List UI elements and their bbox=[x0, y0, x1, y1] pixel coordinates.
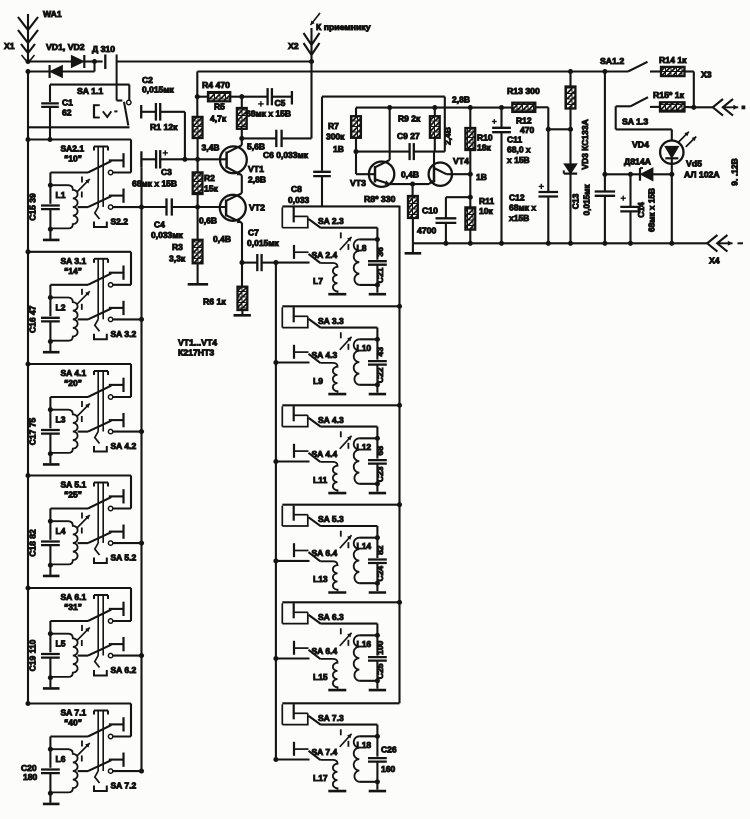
label SA 6.3 bbox=[318, 612, 344, 622]
svg-text:0,015мк: 0,015мк bbox=[247, 238, 280, 248]
wire C7 bus feed SA 4.4 bbox=[276, 460, 310, 462]
switch S2.2 blade bbox=[88, 196, 111, 207]
svg-text:SA 3.1: SA 3.1 bbox=[61, 256, 87, 266]
svg-text:VT4: VT4 bbox=[453, 156, 469, 166]
led VD5 bbox=[660, 129, 696, 174]
wire filter output bus bbox=[398, 206, 400, 704]
svg-text:L2: L2 bbox=[56, 302, 66, 312]
band box SA 4.1 right edge bbox=[113, 364, 131, 397]
wire collector node to C6 bbox=[242, 137, 276, 139]
svg-text:“10”: “10” bbox=[64, 154, 82, 164]
label C26 value bbox=[381, 744, 397, 774]
inductor L8 bbox=[354, 239, 378, 285]
node rail junction bbox=[546, 241, 551, 246]
label X4 bbox=[709, 256, 720, 266]
band box SA2.1 top edge bbox=[25, 137, 131, 142]
wire amp2 rail bbox=[356, 107, 512, 109]
svg-text:R4 470: R4 470 bbox=[202, 80, 230, 90]
switch SA 7.4 blade bbox=[309, 751, 321, 760]
resistor R11 bbox=[465, 207, 475, 243]
svg-text:0,015мк: 0,015мк bbox=[582, 184, 592, 216]
resistor R4 bbox=[208, 92, 230, 101]
label X1 bbox=[4, 41, 15, 51]
wire top feed corner bbox=[117, 55, 312, 101]
svg-text:C12: C12 bbox=[509, 193, 525, 203]
node rail junction bbox=[443, 241, 448, 246]
switch SA 6.4 contact bbox=[294, 543, 309, 557]
wire antenna bus left bbox=[27, 72, 29, 704]
inductor L11 bbox=[320, 462, 337, 492]
svg-text:S2.2: S2.2 bbox=[111, 217, 129, 227]
label R5 4,7k bbox=[210, 102, 227, 124]
svg-text:C6 0,033мк: C6 0,033мк bbox=[263, 150, 309, 160]
svg-text:R12: R12 bbox=[516, 116, 532, 126]
svg-text:2,4В: 2,4В bbox=[443, 127, 453, 145]
svg-text:C23: C23 bbox=[375, 466, 385, 482]
wire SA 6.3 to tank bbox=[321, 624, 380, 638]
wire SA 2.3 to tank bbox=[321, 228, 380, 242]
switch SA 2.3 frame bbox=[282, 207, 308, 227]
wire amp2 input line bbox=[282, 205, 399, 207]
label R8* 330 bbox=[364, 194, 396, 204]
switch S2.2 contact row2 bbox=[109, 189, 124, 203]
label L17 bbox=[313, 773, 328, 783]
wire C7 bus feed SA 2.4 bbox=[276, 262, 310, 264]
label SA 1.1 bbox=[77, 86, 103, 96]
label R7 300k bbox=[326, 121, 345, 142]
svg-text:C9 27: C9 27 bbox=[397, 131, 420, 141]
inductor L13 bbox=[320, 561, 337, 591]
node C10 junction bbox=[468, 195, 473, 200]
label C19 110 bbox=[28, 639, 38, 671]
switch SA1.1 contact bbox=[127, 100, 131, 104]
adjustment arrow L6 bbox=[77, 741, 89, 762]
svg-text:SA 4.3: SA 4.3 bbox=[312, 350, 338, 360]
label L15 bbox=[313, 672, 328, 682]
label 1V R7 bbox=[333, 144, 344, 154]
label SA 3.3 bbox=[318, 316, 344, 326]
svg-text:SA 2.3: SA 2.3 bbox=[318, 216, 344, 226]
adjustment arrow L12 bbox=[340, 431, 352, 449]
label band number &#8220;14&#8221; bbox=[64, 266, 82, 276]
resistor R9 bbox=[430, 108, 440, 152]
node rail junction bbox=[499, 241, 504, 246]
svg-text:300к: 300к bbox=[326, 132, 345, 142]
label L6 bbox=[56, 754, 66, 764]
diode VD2 bbox=[72, 55, 95, 68]
transistor VT2 bbox=[172, 175, 246, 223]
switch SA 7.3 blade bbox=[309, 716, 321, 725]
svg-text:SA 6.1: SA 6.1 bbox=[61, 592, 87, 602]
switch SA 6.1 contact row1 bbox=[109, 602, 124, 616]
inductor L1 tap bbox=[78, 206, 88, 208]
node C14 top bbox=[628, 172, 633, 177]
node VT1 collector junction bbox=[239, 136, 244, 141]
connector X2 to receiver bbox=[304, 13, 321, 62]
switch SA 6.4 contact bbox=[294, 641, 309, 655]
node R1 base junction bbox=[195, 157, 200, 162]
label 36 bbox=[375, 247, 385, 257]
wire SA 5.2 output bbox=[113, 541, 144, 546]
switch S2.2 pole circle bbox=[108, 205, 112, 209]
wire R13 corner bbox=[548, 107, 570, 129]
svg-text:X3: X3 bbox=[701, 70, 712, 80]
svg-text:L9: L9 bbox=[313, 376, 323, 386]
wire SA 4.2 output bbox=[113, 429, 144, 434]
node C2-base junction bbox=[182, 157, 187, 162]
label SA 5.1 bbox=[61, 480, 87, 490]
svg-text:C13: C13 bbox=[571, 193, 581, 209]
ground bar L9 bbox=[328, 393, 346, 396]
svg-text:C16 47: C16 47 bbox=[28, 305, 38, 333]
node rail junction bbox=[568, 241, 573, 246]
svg-text:L6: L6 bbox=[56, 754, 66, 764]
label C16 47 bbox=[28, 305, 38, 333]
ground bar C25 bbox=[369, 689, 386, 692]
label SA 3.2 bbox=[111, 329, 137, 339]
label 43 bbox=[375, 347, 385, 357]
label SA 7.2 bbox=[111, 781, 137, 791]
label AL 102A bbox=[684, 170, 720, 180]
diode VD1 bbox=[50, 62, 95, 79]
capacitor C23 bbox=[368, 438, 387, 491]
resistor R6 bbox=[238, 263, 248, 315]
label C9 27 bbox=[397, 131, 420, 141]
label C8 bbox=[288, 184, 310, 205]
svg-text:C1: C1 bbox=[62, 98, 73, 108]
wire diode row bottom bbox=[28, 70, 50, 72]
label SA 4.3 bbox=[318, 415, 344, 425]
svg-text:C24: C24 bbox=[375, 566, 385, 582]
label SA 7.3 bbox=[318, 713, 344, 723]
switch SA2.1 pole circle bbox=[108, 170, 112, 174]
svg-text:SA 4.1: SA 4.1 bbox=[61, 368, 87, 378]
adjustment arrow L16 bbox=[340, 628, 352, 646]
switch gang actuator SA 6.2 bbox=[94, 656, 107, 676]
svg-text:L8: L8 bbox=[357, 243, 367, 253]
svg-text:18к: 18к bbox=[477, 143, 491, 153]
svg-text:68мк x 15В: 68мк x 15В bbox=[132, 179, 177, 189]
filter section SA 5.3 top edge bbox=[282, 504, 399, 506]
capacitor C17 tank bbox=[41, 410, 60, 464]
node section bus junction bbox=[397, 600, 402, 605]
wire tank top L6 bbox=[48, 737, 88, 752]
switch SA 5.3 blade bbox=[309, 517, 321, 526]
capacitor C2 bbox=[141, 103, 185, 121]
switch SA 7.1 blade bbox=[88, 725, 111, 736]
switch SA 4.1 blade bbox=[88, 386, 111, 397]
ground bar tank bbox=[43, 239, 60, 242]
node C7 junction bbox=[239, 260, 244, 265]
switch SA 6.2 contact row2 bbox=[109, 637, 124, 651]
inductor L5 tap bbox=[78, 655, 88, 657]
switch SA 6.2 blade bbox=[88, 645, 111, 656]
adjustment arrow L2 bbox=[77, 289, 89, 310]
label SA 4.4 bbox=[312, 449, 338, 459]
switch SA 6.3 blade bbox=[309, 615, 321, 624]
capacitor C13 bbox=[595, 192, 615, 244]
wire C7 bus feed SA 6.4 bbox=[276, 657, 310, 659]
resistor R7 bbox=[351, 108, 361, 152]
switch gang actuator SA 5.2 bbox=[94, 543, 107, 563]
label C5 bbox=[275, 98, 286, 108]
switch SA 4.3 blade bbox=[309, 418, 321, 427]
svg-text:VT2: VT2 bbox=[249, 203, 265, 213]
switch SA 6.3 contact bbox=[294, 603, 308, 623]
label SA1.2 bbox=[600, 56, 624, 66]
ground bar tank bbox=[43, 687, 60, 690]
band box SA 7.1 right edge bbox=[113, 704, 131, 737]
label L5 bbox=[56, 639, 66, 649]
capacitor C25 bbox=[368, 635, 387, 688]
node R10 rail top bbox=[468, 105, 473, 110]
svg-text:C21: C21 bbox=[375, 267, 385, 283]
label C21 bbox=[375, 267, 385, 283]
node rail junction bbox=[468, 241, 473, 246]
switch SA 7.4 contact bbox=[294, 742, 309, 756]
wire main supply top bbox=[197, 70, 628, 72]
svg-text:15к: 15к bbox=[204, 184, 218, 194]
switch gang bars SA2.1 bbox=[94, 147, 108, 208]
capacitor C12 bbox=[539, 129, 559, 243]
svg-text:C8: C8 bbox=[291, 184, 302, 194]
label R9 2k bbox=[398, 114, 421, 124]
svg-text:R5: R5 bbox=[214, 102, 225, 112]
label L18 bbox=[357, 740, 372, 750]
svg-text:C26: C26 bbox=[381, 744, 397, 754]
node supply C13 top bbox=[602, 69, 607, 74]
band box SA 3.1 right edge bbox=[113, 252, 131, 285]
svg-text:C14: C14 bbox=[636, 202, 646, 218]
label VD3 KS133A bbox=[580, 119, 590, 169]
capacitor C16 tank bbox=[41, 298, 60, 352]
resistor R1 bbox=[193, 97, 203, 160]
svg-text:68мк x 15В: 68мк x 15В bbox=[246, 109, 291, 119]
switch SA 5.1 contact row1 bbox=[109, 489, 124, 503]
switch SA 5.2 blade bbox=[88, 532, 111, 543]
switch SA 3.1 blade bbox=[88, 273, 111, 284]
label VD1, VD2 bbox=[46, 42, 85, 52]
label 0,4V amp2 bbox=[401, 170, 419, 180]
switch SA 3.1 contact row1 bbox=[109, 266, 124, 280]
svg-text:0,6В: 0,6В bbox=[199, 216, 217, 226]
label L14 bbox=[357, 541, 372, 551]
label R11 10k bbox=[479, 196, 494, 216]
svg-text:62: 62 bbox=[62, 108, 72, 118]
label band number &#8220;25&#8221; bbox=[64, 490, 82, 500]
node section bus junction bbox=[397, 403, 402, 408]
ground bar C26 bbox=[369, 790, 386, 793]
svg-text:1В: 1В bbox=[333, 144, 344, 154]
ground bar C22 bbox=[369, 393, 386, 396]
capacitor C14 bbox=[620, 174, 640, 243]
switch SA 3.1 pole circle bbox=[108, 283, 112, 287]
label C5 value bbox=[246, 109, 291, 119]
svg-text:10к: 10к bbox=[479, 206, 493, 216]
label WA1 bbox=[43, 9, 62, 19]
label L10 bbox=[357, 343, 372, 353]
label R10 18k bbox=[477, 133, 493, 153]
capacitor C6 bbox=[276, 130, 311, 147]
label SA 4.3 bbox=[312, 350, 338, 360]
svg-text:VD3 КС133А: VD3 КС133А bbox=[580, 119, 590, 169]
wire C7 bus feed SA 7.4 bbox=[276, 758, 310, 760]
band box SA 7.1 top edge bbox=[25, 701, 131, 706]
svg-text:L14: L14 bbox=[357, 541, 372, 551]
svg-text:L16: L16 bbox=[357, 639, 372, 649]
label L16 bbox=[357, 639, 372, 649]
node section bus junction bbox=[397, 304, 402, 309]
wire C3 selector bus bbox=[140, 167, 142, 771]
node VD junction bbox=[92, 59, 97, 64]
svg-text:L1: L1 bbox=[56, 190, 66, 200]
label SA2.1 bbox=[61, 144, 85, 154]
ground bar tank bbox=[43, 575, 60, 578]
label C13 bbox=[571, 184, 592, 216]
inductor L17 bbox=[320, 760, 337, 790]
svg-text:SA 3.2: SA 3.2 bbox=[111, 329, 137, 339]
switch SA 5.3 contact bbox=[294, 506, 308, 526]
label 82 bbox=[375, 545, 385, 555]
wire C7 feed bus bbox=[273, 260, 278, 759]
wire emitter bar bbox=[390, 183, 429, 185]
label C14 bbox=[636, 188, 657, 232]
inductor L7 bbox=[320, 263, 337, 293]
inductor L4 tap bbox=[78, 542, 88, 544]
wire ground rail bbox=[413, 242, 707, 244]
label VT2 bbox=[249, 203, 265, 213]
svg-text:1В: 1В bbox=[476, 172, 487, 182]
connector X4 plug bbox=[707, 235, 743, 252]
wire R4 to C5 bbox=[230, 96, 267, 98]
node rail junction bbox=[669, 241, 674, 246]
filter section SA 7.3 top edge bbox=[282, 702, 399, 704]
label 2,4V bbox=[443, 127, 453, 145]
node R4 left junction bbox=[195, 94, 200, 99]
svg-text:Д 310: Д 310 bbox=[92, 44, 115, 54]
svg-text:R8* 330: R8* 330 bbox=[364, 194, 396, 204]
band box SA 6.1 top edge bbox=[25, 585, 131, 590]
wire SA 7.2 output bbox=[113, 769, 144, 774]
switch SA 4.4 blade bbox=[309, 453, 321, 462]
label C11 plus bbox=[492, 119, 497, 124]
wire X3 corner bbox=[693, 72, 695, 108]
switch SA 3.2 pole circle bbox=[108, 317, 112, 321]
svg-text:SA 7.3: SA 7.3 bbox=[318, 713, 344, 723]
label SA 2.4 bbox=[312, 250, 338, 260]
label X3 bbox=[701, 70, 712, 80]
label X2 bbox=[288, 41, 299, 51]
svg-text:4700: 4700 bbox=[417, 226, 436, 236]
svg-text:X2: X2 bbox=[288, 41, 299, 51]
svg-text:VD4: VD4 bbox=[632, 140, 649, 150]
wire base line bbox=[356, 151, 445, 153]
node R2 base2 junction bbox=[195, 204, 200, 209]
switch SA 7.2 contact row2 bbox=[109, 753, 124, 767]
inductor L18 bbox=[354, 736, 378, 782]
ground bar rail bbox=[405, 243, 422, 253]
switch SA1.2 bbox=[628, 62, 661, 72]
node VT3 collector top bbox=[387, 105, 392, 110]
label VT3 bbox=[350, 178, 366, 188]
switch SA 4.2 pole circle bbox=[108, 429, 112, 433]
wire X2 down to C6 bbox=[310, 62, 312, 139]
label L3 bbox=[56, 415, 66, 425]
inductor L2 bbox=[50, 298, 77, 341]
switch SA 7.1 pole circle bbox=[108, 734, 112, 738]
adjustment arrow L10 bbox=[340, 332, 352, 350]
svg-text:L15: L15 bbox=[313, 672, 328, 682]
label D310 bbox=[92, 44, 115, 54]
svg-text:L11: L11 bbox=[313, 475, 327, 485]
svg-text:“14”: “14” bbox=[64, 266, 82, 276]
svg-text:X4: X4 bbox=[709, 256, 720, 266]
svg-text:SA 4.4: SA 4.4 bbox=[312, 449, 338, 459]
svg-text:0,4В: 0,4В bbox=[213, 234, 231, 244]
ground bar C24 bbox=[369, 591, 386, 594]
wire tank top L1 bbox=[48, 173, 88, 188]
label SA 6.4 bbox=[312, 548, 338, 558]
label C2 bbox=[142, 75, 175, 95]
label C6 0,033mk bbox=[263, 150, 309, 160]
label band number &#8220;20&#8221; bbox=[64, 378, 82, 388]
svg-text:C22: C22 bbox=[375, 367, 385, 383]
svg-text:SA 3.3: SA 3.3 bbox=[318, 316, 344, 326]
ground bar R3 bbox=[188, 283, 208, 286]
node VT4 collector junction bbox=[468, 172, 473, 177]
label band number &#8220;10&#8221; bbox=[64, 154, 82, 164]
svg-text:C19 110: C19 110 bbox=[28, 639, 38, 671]
svg-text:R9 2к: R9 2к bbox=[398, 114, 421, 124]
label R2 15k bbox=[204, 173, 218, 194]
capacitor C20 tank bbox=[41, 749, 60, 803]
ground bar L11 bbox=[328, 492, 346, 495]
svg-text:L12: L12 bbox=[357, 442, 372, 452]
svg-text:36: 36 bbox=[375, 247, 385, 257]
resistor R3 bbox=[193, 207, 203, 283]
filter section SA 6.3 top edge bbox=[282, 601, 399, 603]
node X3 junction bbox=[691, 105, 696, 110]
resistor R13 bbox=[512, 103, 548, 112]
wire supply drop C13 bbox=[604, 72, 606, 192]
svg-text:43: 43 bbox=[375, 347, 385, 357]
switch SA 7.1 contact row1 bbox=[109, 717, 124, 731]
wire LED cathode down bbox=[671, 174, 673, 243]
label C7 bbox=[247, 228, 280, 249]
switch box SA1.1 outline bbox=[28, 85, 130, 128]
label C12 plus bbox=[539, 184, 544, 189]
svg-text:C10: C10 bbox=[422, 206, 438, 216]
node rail junction bbox=[602, 241, 607, 246]
switch gang actuator S2.2 bbox=[94, 207, 107, 227]
svg-text:68,0 x: 68,0 x bbox=[507, 145, 531, 155]
label L12 bbox=[357, 442, 372, 452]
label VT1 bbox=[248, 164, 264, 174]
label C1 62 bbox=[62, 98, 73, 118]
node R4-R5 junction bbox=[239, 94, 244, 99]
svg-text:“25”: “25” bbox=[64, 490, 82, 500]
band box SA 5.1 right edge bbox=[113, 476, 131, 509]
resistor R5 bbox=[237, 97, 247, 139]
wire amp2 box top bbox=[322, 97, 445, 152]
svg-text:SA 7.4: SA 7.4 bbox=[312, 747, 338, 757]
node R9 top bbox=[432, 105, 437, 110]
label C12 bbox=[509, 193, 536, 224]
ground bar L13 bbox=[328, 591, 346, 594]
switch gang bars SA 4.1 bbox=[94, 371, 108, 432]
svg-text:L3: L3 bbox=[56, 415, 66, 425]
svg-text:SA 6.4: SA 6.4 bbox=[312, 548, 338, 558]
